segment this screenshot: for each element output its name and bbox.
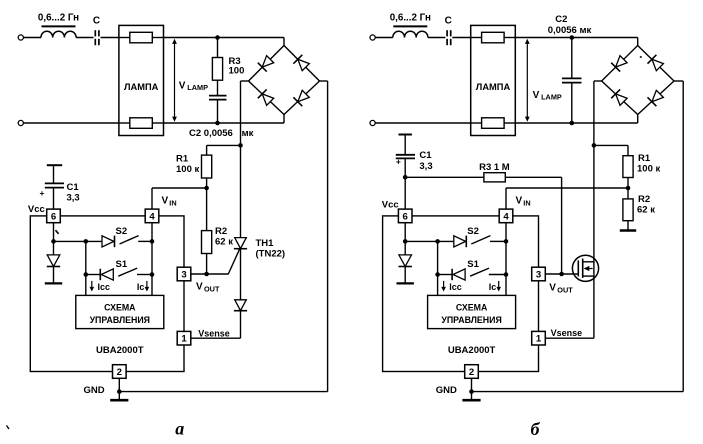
wire S1 lead (b) [438,274,453,276]
svg-text:C2 0,0056: C2 0,0056 [189,128,233,139]
svg-text:62 к: 62 к [215,236,233,247]
label TH1 TN22 (a) [256,238,286,260]
label C (a) [93,16,100,27]
input terminal bottom-left (b) [370,120,375,125]
MOSFET source stub (b) [583,275,594,277]
wire thyristor to diode (a) [240,249,242,300]
pin 6 (a) [47,209,61,223]
svg-text:100 к: 100 к [637,164,660,175]
capacitor C2 (a) [209,96,227,100]
switch S1 contact (a) [137,274,152,276]
svg-text:2: 2 [469,367,474,378]
label R1 100k (a) [176,153,199,175]
artifact speck near bridge (b) [640,56,642,58]
pin 1 (b) [532,331,546,345]
node R3 / V_OUT (b) [559,272,564,277]
capacitor C1 top bar (b) [399,134,412,136]
label GND (b) [436,385,457,396]
lamp box (a) [119,25,164,135]
capacitor C2 bottom lead (b) [571,83,573,123]
caption a [175,419,184,439]
svg-text:TH1: TH1 [256,238,275,249]
svg-text:OUT: OUT [204,284,220,293]
wire V_IN horizontal (a) [152,187,207,189]
switch S2 contact (a) [138,240,152,242]
resistor R3 (a) [212,58,222,81]
label C (b) [445,16,452,27]
capacitor C1 top lead (b) [404,135,406,155]
node S2 pin4 rail (a) [150,239,155,244]
V_LAMP arrow (a) [172,39,177,122]
node under pin6 (b) [403,239,408,244]
svg-text:ЛАМПА: ЛАМПА [476,82,511,92]
pin 4 (a) [145,209,159,223]
capacitor C (b) [447,30,451,45]
wire lamp to bridge top (a) [164,37,285,39]
wire V_OUT to gate (b) [545,273,578,275]
label Vsense (b) [551,328,583,338]
resistor R2 (a) [202,231,212,254]
svg-text:R2: R2 [215,226,227,237]
ground symbol (b) [462,392,480,401]
svg-text:Vsense: Vsense [551,328,583,338]
wire C1 to pin6 (a) [53,188,55,210]
bridge edge bottom-right (a) [284,81,320,115]
svg-text:UBA2000T: UBA2000T [96,345,144,356]
bridge edge top-left (a) [249,46,285,82]
svg-text:V: V [516,195,523,206]
inductor value bar (a) [42,25,76,27]
svg-text:3,3: 3,3 [67,192,80,203]
label C1 plus (b) [396,157,401,167]
node left rail top (b) [435,239,440,244]
label 0,6...2 Gn (b) [390,12,431,23]
label V_OUT (a) [196,281,220,293]
wire C1 to R3 node (b) [404,158,406,177]
wire V_IN down to pin4 (a) [151,188,153,209]
bridge diode top-right (a) [293,55,309,71]
wire C to lamp (a) [101,37,119,39]
label UBA2000T (b) [448,345,496,356]
caption b [531,419,541,439]
label S2 (b) [467,226,479,237]
artifact tick (a) [56,230,59,234]
switch S1 diode (a) [100,269,113,280]
artifact mark bottom-left [7,426,10,430]
label C2 (b) [555,14,567,25]
wire left rail down (a) [85,241,87,295]
label R1 100k (b) [637,153,660,175]
svg-text:мк: мк [242,128,254,139]
svg-text:V: V [549,282,556,293]
lamp filament top (b) [482,32,505,43]
wire R1 node right (b) [594,144,628,146]
switch S2 diode (a) [102,236,115,248]
svg-text:Vcc: Vcc [382,199,399,210]
thyristor gate wire (a) [228,249,239,274]
svg-text:1: 1 [181,334,187,345]
diode series (a) [234,300,247,311]
svg-text:2: 2 [117,367,122,378]
resistor R3 1M (b) [484,173,505,182]
wire R3 to C2 (a) [217,80,219,95]
internal diode (zener) (a) [47,241,60,266]
wire R1 top lead (a) [206,145,208,155]
wire lamp to bridge top (b) [516,37,638,39]
bridge diode top-right (b) [647,55,663,71]
bridge edge bottom-left (b) [602,81,638,115]
svg-text:+: + [396,157,401,167]
wire bottom to bridge (b) [516,122,638,124]
svg-text:V: V [196,281,203,292]
bridge edge top-left (b) [602,46,638,82]
svg-text:R3 1 M: R3 1 M [479,162,510,173]
svg-text:C1: C1 [419,150,432,161]
label Vcc (a) [28,204,45,215]
wire R1 node left (a) [207,144,241,146]
wire inductor to C (b) [428,37,446,39]
bridge diode bottom-right (b) [647,90,663,106]
bridge diode bottom-left (b) [611,89,627,105]
wire inductor to C (a) [76,37,94,39]
wire R1 bottom lead (a) [206,178,208,188]
svg-text:4: 4 [503,211,509,222]
wire into bottom filament (a) [119,122,130,124]
wire input to inductor (b) [375,37,393,39]
bridge edge top-right (a) [284,46,320,82]
node R1 top (a) [238,143,243,148]
svg-text:GND: GND [84,385,105,396]
wire V_IN horizontal (b) [506,187,628,189]
label Icc (a) [98,282,111,292]
label S2 (a) [115,226,127,237]
svg-text:а: а [175,419,184,439]
node under pin6 (a) [51,239,56,244]
Icc arrow (a) [90,281,95,292]
svg-text:IN: IN [169,198,176,207]
wire into top filament (a) [119,37,130,39]
bridge stub top (a) [283,38,285,46]
label C1 3,3 (a) [67,182,80,204]
pin 2 (a) [113,365,127,379]
wire R2 bottom lead (a) [206,254,208,275]
wire C1 node to R3 (b) [405,176,484,178]
bridge stub top (b) [637,38,639,46]
wire R3 rail down (b) [561,177,563,274]
MOSFET T1 circle (b) [572,255,598,281]
svg-text:Vcc: Vcc [28,204,45,215]
svg-text:0,6...2 Гн: 0,6...2 Гн [38,12,79,23]
bridge stub bottom (a) [283,115,285,124]
wire bridge return up (a) [327,81,329,392]
node left rail S1 (b) [435,272,440,277]
svg-text:УПРАВЛЕНИЯ: УПРАВЛЕНИЯ [90,315,150,325]
label S1 (a) [115,259,127,270]
label Ic (b) [489,282,497,292]
control box (b) [428,295,516,328]
bridge stub right (a) [320,80,328,82]
label SKHEMA (a) [104,302,136,312]
bridge stub bottom (b) [637,115,639,124]
svg-text:V: V [533,90,540,101]
node left rail top (a) [84,239,89,244]
wire Vsense horizontal (a) [191,337,241,339]
resistor R1 (a) [202,155,212,178]
node R1 wire (b) [592,143,597,148]
wire pin6 down (b) [404,223,406,242]
switch S1 diode (b) [452,269,465,280]
resistor R1 (b) [623,156,633,178]
bridge stub left (b) [594,80,602,82]
wire top filament out (b) [504,37,516,39]
Ic arrow (b) [496,281,501,292]
MOSFET channel bar (b) [582,259,584,278]
label C1 3,3 (b) [419,150,432,172]
wire bottom filament out (b) [504,122,516,124]
svg-text:Icc: Icc [98,282,111,292]
label UPRAVLENIYA (b) [441,315,501,325]
wire pin2 down (b) [471,378,473,391]
wire diode to Vsense corner (a) [240,311,242,339]
switch S1 contact (b) [489,274,506,276]
label V_LAMP (b) [533,90,562,102]
svg-text:100: 100 [229,66,245,77]
svg-text:Icc: Icc [449,282,462,292]
svg-text:+: + [40,188,45,198]
wire top filament out (a) [152,37,164,39]
bridge stub right (b) [674,80,683,82]
wire bridge return up (b) [682,81,684,392]
internal diode bottom bar (a) [45,267,62,284]
capacitor C1 (a) [45,183,64,187]
svg-text:S2: S2 [115,226,127,237]
Ic arrow (a) [145,281,150,292]
node S2 pin4 rail (b) [504,239,509,244]
bridge diode top-left (a) [258,56,274,72]
capacitor C1 (b) [396,155,415,159]
svg-text:6: 6 [403,211,408,222]
label GND (a) [84,385,105,396]
svg-text:S2: S2 [467,226,479,237]
resistor R2 (b) [623,199,633,221]
switch S2 contact (b) [490,240,506,242]
node top wire / R3 (a) [215,35,220,40]
Icc arrow (b) [441,281,446,292]
svg-text:ЛАМПА: ЛАМПА [124,82,159,92]
label R2 62k (b) [637,194,655,215]
wire bottom to bridge (a) [164,122,285,124]
input terminal top-left (a) [18,35,23,40]
svg-text:C2: C2 [555,14,567,25]
ground R2 (b) [620,221,636,231]
svg-text:V: V [179,80,186,91]
internal diode bottom bar (b) [397,267,414,284]
wire left rail down (b) [437,241,439,295]
wire into bottom filament (b) [471,122,483,124]
MOSFET gate bar (b) [577,260,579,276]
label R3 100 (a) [229,56,245,77]
bridge stub left (a) [241,80,249,82]
input terminal top-left (b) [370,35,375,40]
wire GND to bridge return (b) [472,391,684,393]
svg-text:R1: R1 [176,153,189,164]
switch S2 blade (a) [120,236,139,244]
node S1 pin4 rail (a) [150,272,155,277]
wire S2 row left (a) [54,240,103,242]
svg-text:СХЕМА: СХЕМА [456,302,488,312]
wire S2 row left (b) [405,240,454,242]
node bottom wire / C2 (b) [570,121,575,126]
label V_IN (b) [516,195,531,207]
label Vsense (a) [198,328,230,338]
svg-text:UBA2000T: UBA2000T [448,345,496,356]
input terminal bottom-left (a) [18,120,23,125]
wire S1 lead (a) [86,274,101,276]
wire pin4 rail down (a) [151,223,153,296]
wire GND to bridge return (a) [119,391,327,393]
wire bottom input to lamp (a) [23,122,119,124]
svg-text:3,3: 3,3 [419,161,432,172]
label V_IN (a) [162,195,177,207]
pin 3 (a) [177,267,191,281]
svg-text:C1: C1 [67,182,80,193]
svg-text:LAMP: LAMP [541,93,562,102]
capacitor C2 top lead (b) [571,38,573,79]
svg-text:GND: GND [436,385,457,396]
wire bottom input to lamp (b) [375,122,471,124]
ground symbol (a) [110,392,128,401]
lamp filament top (a) [130,32,153,43]
wire R2 top lead (a) [206,188,208,231]
chip outline UBA2000T (a) [30,216,184,372]
svg-text:6: 6 [51,211,56,222]
node R1/R2 V_IN (b) [626,186,631,191]
wire R3 top lead (a) [217,38,219,58]
switch S2 blade (b) [471,236,490,244]
label LAMPA (b) [476,82,511,92]
svg-text:УПРАВЛЕНИЯ: УПРАВЛЕНИЯ [441,315,501,325]
node GND (a) [117,389,122,394]
wire down to thyristor (a) [240,145,242,237]
wire node to pin6 (b) [404,177,406,209]
wire Vsense horizontal (b) [545,337,594,339]
svg-text:Vsense: Vsense [198,328,230,338]
pin 4 (b) [499,209,513,223]
svg-text:LAMP: LAMP [187,83,208,92]
inductor L 0,6...2 Gn (a) [41,31,76,37]
label Vcc (b) [382,199,399,210]
label S1 (b) [467,259,479,270]
wire input to inductor (a) [23,37,41,39]
wire pin2 down (a) [118,378,120,391]
node C1 / R3 (b) [403,175,408,180]
bridge edge bottom-left (a) [249,81,285,115]
wire bridge left down (b) [593,81,595,145]
chip outline UBA2000T (b) [383,216,539,372]
svg-text:б: б [531,419,541,439]
wire R3 to gate rail (b) [505,176,561,178]
bridge diode bottom-right (a) [293,90,309,106]
capacitor C1 top lead (a) [53,165,55,183]
wire down to MOSFET drain (b) [593,145,595,338]
label SKHEMA (b) [456,302,488,312]
internal diode (zener) (b) [399,241,412,266]
label R2 62k (a) [215,226,233,248]
label Ic (a) [137,282,145,292]
pin 2 (b) [465,365,479,379]
bridge edge top-right (b) [638,46,674,82]
svg-text:C: C [445,16,452,27]
label 0,0056 mk (b) [548,25,592,36]
wire V_IN down to pin4 (b) [505,188,507,209]
MOSFET drain stub (b) [583,261,594,263]
svg-text:4: 4 [149,211,155,222]
MOSFET body arrow (b) [584,266,593,271]
node R2 / V_OUT (a) [204,272,209,277]
svg-text:Ic: Ic [489,282,497,292]
bridge diode bottom-left (a) [258,89,274,105]
wire bridge left to R1 node (a) [240,81,242,145]
node GND (b) [469,389,474,394]
svg-text:R2: R2 [638,194,650,205]
label V_LAMP (a) [179,80,208,92]
svg-text:1: 1 [536,334,542,345]
node V_IN / R2 (a) [204,186,209,191]
node top wire / C2 (b) [570,35,575,40]
inductor L 0,6...2 Gn (b) [393,31,428,37]
wire bottom filament out (a) [152,122,164,124]
wire pin4 rail down (b) [505,223,507,296]
label R3 1 M (b) [479,162,510,173]
switch S1 blade (a) [118,268,137,276]
capacitor C1 top bar (a) [47,164,62,166]
wire R2 top lead (b) [627,188,629,199]
svg-text:S1: S1 [467,259,479,270]
switch S1 blade (b) [470,268,489,276]
label UPRAVLENIYA (a) [90,315,150,325]
switch S2 diode (b) [454,236,467,248]
capacitor C2 (b) [562,78,582,82]
lamp filament bottom (a) [130,118,153,129]
capacitor C (a) [95,30,99,45]
lamp box (b) [471,25,516,135]
svg-text:(TN22): (TN22) [256,248,286,259]
lamp filament bottom (b) [482,118,505,129]
svg-text:100 к: 100 к [176,164,199,175]
label C1 plus (a) [40,188,45,198]
svg-text:OUT: OUT [557,285,573,294]
svg-text:0,6...2 Гн: 0,6...2 Гн [390,12,431,23]
wire C to lamp (b) [452,37,470,39]
pin 3 (b) [532,267,546,281]
svg-text:R1: R1 [638,153,651,164]
svg-text:62 к: 62 к [637,204,655,215]
wire R1 top lead (b) [627,145,629,155]
V_LAMP arrow (b) [525,39,530,122]
svg-text:3: 3 [536,269,541,280]
label LAMPA (a) [124,82,159,92]
bridge edge bottom-right (b) [638,81,674,115]
svg-text:IN: IN [523,198,530,207]
svg-text:0,0056 мк: 0,0056 мк [548,25,592,36]
wire R1 bottom lead (b) [627,178,629,189]
label UBA2000T (a) [96,345,144,356]
svg-text:Ic: Ic [137,282,145,292]
inductor value bar (b) [393,25,427,27]
label V_OUT (b) [549,282,573,294]
svg-text:C: C [93,16,100,27]
node S1 pin4 rail (b) [504,272,509,277]
